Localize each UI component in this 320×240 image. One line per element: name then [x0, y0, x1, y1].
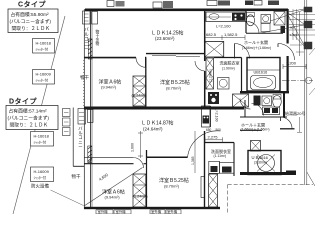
svg-text:1,365: 1,365: [191, 156, 195, 165]
svg-text:(8.70m²): (8.70m²): [166, 86, 182, 91]
svg-text:間取り：２ＬＤＫ: 間取り：２ＬＤＫ: [12, 26, 51, 32]
svg-text:H-16009: H-16009: [34, 169, 50, 174]
svg-text:500: 500: [216, 128, 222, 132]
svg-text:ｼｬｯﾀｰ付: ｼｬｯﾀｰ付: [36, 78, 49, 83]
svg-text:ＵＢ1616: ＵＢ1616: [251, 155, 269, 160]
svg-text:Dタイプ: Dタイプ: [9, 97, 38, 106]
svg-text:600: 600: [290, 26, 295, 30]
svg-text:2,275: 2,275: [208, 134, 219, 139]
svg-text:室外機: 室外機: [98, 209, 109, 214]
svg-text:(バルコニー含まず): (バルコニー含まず): [8, 115, 50, 122]
svg-text:物干: 物干: [72, 173, 81, 180]
svg-text:1,600: 1,600: [131, 143, 135, 152]
svg-text:H-16018: H-16018: [34, 134, 50, 139]
svg-text:650: 650: [206, 128, 212, 132]
svg-text:洗面脱衣室: 洗面脱衣室: [220, 60, 240, 66]
svg-text:1,582.5: 1,582.5: [224, 32, 238, 37]
svg-text:ｼｬｯﾀｰ付: ｼｬｯﾀｰ付: [34, 175, 47, 180]
svg-text:(バルコニー含まず): (バルコニー含まず): [10, 18, 52, 25]
svg-text:(24.64m²): (24.64m²): [143, 126, 163, 131]
svg-text:H-16018: H-16018: [36, 41, 52, 46]
svg-text:占有面積:55.90m²: 占有面積:55.90m²: [11, 11, 50, 18]
svg-text:ホール＋玄関: ホール＋玄関: [244, 39, 268, 45]
svg-text:(1.11m²): (1.11m²): [214, 154, 227, 158]
svg-text:室外機: 室外機: [151, 209, 162, 214]
svg-text:物干金物: 物干金物: [96, 29, 100, 46]
svg-text:(8.70m²): (8.70m²): [164, 184, 180, 189]
svg-text:UB1616: UB1616: [254, 71, 268, 75]
svg-text:(1.24m²): (1.24m²): [133, 194, 149, 199]
svg-text:(9.94m²): (9.94m²): [105, 195, 121, 200]
svg-text:室外機: 室外機: [167, 209, 178, 214]
svg-text:給湯器20号: 給湯器20号: [285, 110, 305, 116]
svg-text:ｼｬｯﾀｰ付: ｼｬｯﾀｰ付: [36, 47, 49, 52]
svg-text:室外機: 室外機: [116, 209, 127, 214]
svg-text:682.5: 682.5: [206, 32, 217, 37]
svg-text:(3.30m²): (3.30m²): [254, 161, 267, 165]
svg-text:(1.66m²)＋(1.66m²): (1.66m²)＋(1.66m²): [242, 46, 271, 50]
svg-text:L=2,100: L=2,100: [216, 24, 231, 29]
svg-text:(1.24m²): (1.24m²): [132, 93, 148, 98]
svg-text:(1.90m²): (1.90m²): [222, 67, 235, 71]
svg-text:(1.66m²)＋(1.66m²): (1.66m²)＋(1.66m²): [241, 127, 270, 131]
svg-text:占有面積:57.14m²: 占有面積:57.14m²: [9, 108, 48, 115]
svg-text:バルコニー: バルコニー: [78, 126, 83, 149]
svg-text:ｼｬｯﾀｰ付: ｼｬｯﾀｰ付: [34, 140, 47, 145]
svg-text:防火設備: 防火設備: [31, 183, 49, 190]
svg-text:L=2,100: L=2,100: [215, 109, 219, 122]
svg-text:バルコニー: バルコニー: [84, 27, 89, 51]
svg-text:(9.94m²): (9.94m²): [101, 85, 117, 90]
svg-text:1,200: 1,200: [286, 61, 297, 66]
svg-text:Cタイプ: Cタイプ: [18, 0, 47, 9]
svg-text:ホール＋玄関: ホール＋玄関: [241, 121, 265, 127]
svg-text:H-16009: H-16009: [36, 72, 52, 77]
svg-text:間取り：２ＬＤＫ: 間取り：２ＬＤＫ: [10, 123, 49, 129]
svg-text:(23.60m²): (23.60m²): [155, 36, 175, 41]
svg-text:1,000: 1,000: [290, 33, 298, 37]
svg-text:物干: 物干: [80, 74, 89, 81]
svg-text:(1.24m²): (1.24m²): [209, 69, 213, 82]
